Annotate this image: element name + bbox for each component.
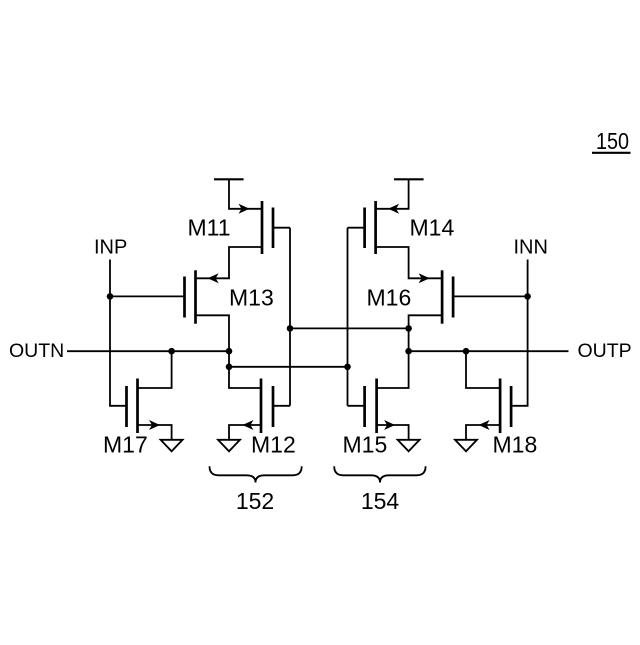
wire: M15 gate to gate column <box>348 405 365 407</box>
svg-text:150: 150 <box>596 128 629 154</box>
wire: M16 source down to M15 drain <box>377 315 443 388</box>
wire: OUTP rail <box>409 350 569 352</box>
wire: cross-coupling line lower (OUTN to M14/M15 gates) <box>229 366 348 368</box>
svg-text:M16: M16 <box>367 285 412 311</box>
node: OUTP-column dot <box>405 348 412 355</box>
ground (M15 source) <box>398 440 420 452</box>
svg-text:154: 154 <box>361 488 400 514</box>
transistor M12 <box>243 379 274 434</box>
transistor M16 <box>419 270 454 323</box>
power rail bar right (VDD for M14) <box>394 178 424 180</box>
wire: M15 source to ground <box>377 425 409 440</box>
svg-text:OUTP: OUTP <box>578 340 632 362</box>
svg-text:M11: M11 <box>188 215 231 241</box>
wire: M12 gate to gate column <box>273 405 290 407</box>
node: lower cross line left dot <box>226 364 233 371</box>
wire: OUTN rail <box>67 350 229 352</box>
node: lower cross line right dot <box>344 364 351 371</box>
node: upper cross line left dot <box>287 325 294 332</box>
node: upper cross line right dot <box>405 325 412 332</box>
svg-text:M14: M14 <box>410 215 455 241</box>
transistor M15 <box>365 379 396 434</box>
wire: M18 source to ground <box>466 425 500 440</box>
svg-text:INP: INP <box>94 237 127 259</box>
svg-text:OUTN: OUTN <box>9 340 64 362</box>
wire: M16 gate to INN node <box>453 295 527 297</box>
wire: M18 drain up to OUTP <box>466 351 500 388</box>
svg-text:M18: M18 <box>493 432 538 458</box>
wire: M11/M12 gate column <box>289 228 291 406</box>
svg-text:M12: M12 <box>251 432 296 458</box>
brace 154 <box>334 466 425 482</box>
wire: M13 gate to INP node <box>110 295 185 297</box>
wire: M14 gate to gate column <box>348 227 365 229</box>
ground (M12 source) <box>218 440 240 452</box>
wire: M14 drain down to M16 drain <box>376 247 443 278</box>
node: OUTP-M18 drain dot <box>463 348 470 355</box>
transistor M11 <box>239 201 274 254</box>
power rail bar left (VDD for M11) <box>214 178 244 180</box>
wire: INP vertical down to M17 gate <box>110 260 127 406</box>
underline of 150 <box>592 152 631 154</box>
transistor M17 <box>127 379 161 434</box>
brace 152 <box>210 466 302 482</box>
wire: INN vertical down to M18 gate <box>511 260 527 406</box>
svg-text:152: 152 <box>236 488 274 514</box>
wire: cross-coupling line upper (gate column to OUTP column) <box>290 327 409 329</box>
node: INP junction dot <box>107 293 114 300</box>
node: OUTN-M17 drain dot <box>168 348 175 355</box>
wire: VDD riser to M11 source <box>229 179 262 209</box>
ground (M18 source) <box>455 440 477 452</box>
wire: VDD riser to M14 source <box>376 179 409 209</box>
wire: M17 source to ground <box>138 425 172 440</box>
ground (M17 source) <box>161 440 183 452</box>
svg-text:M13: M13 <box>229 285 274 311</box>
wire: M14/M15 gate column <box>347 228 349 406</box>
node: INN junction dot <box>524 293 531 300</box>
transistor M18 <box>479 379 512 434</box>
transistor M13 <box>185 270 219 323</box>
svg-text:M17: M17 <box>103 432 148 458</box>
node: OUTN-column dot <box>226 348 233 355</box>
wire: M12 source to ground <box>229 425 261 440</box>
svg-text:INN: INN <box>514 237 548 259</box>
svg-text:M15: M15 <box>343 432 388 458</box>
transistor M14 <box>365 201 400 254</box>
wire: M17 drain up to OUTN <box>138 351 172 388</box>
wire: M11 drain down to M13 drain <box>196 247 263 278</box>
wire: M13 source down to M12 drain <box>196 315 262 388</box>
wire: M11 gate to gate column <box>273 227 290 229</box>
